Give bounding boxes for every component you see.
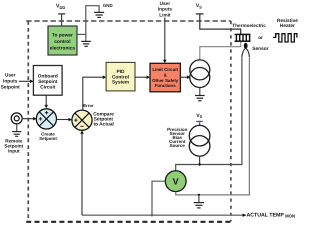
- junction dot actual temp: [151, 214, 153, 216]
- svg-text:GND: GND: [103, 3, 113, 8]
- ground symbol under rail: [81, 41, 91, 46]
- wire bias source to junction: [199, 156, 201, 165]
- svg-text:Error: Error: [83, 103, 94, 108]
- svg-text:User: User: [5, 73, 16, 79]
- label VDD: [56, 4, 65, 10]
- sensor bias current source: [189, 125, 210, 156]
- svg-text:Setpoint: Setpoint: [39, 136, 57, 141]
- svg-text:or: or: [258, 35, 263, 40]
- svg-text:to Actual: to Actual: [94, 121, 114, 127]
- TEC current source: [190, 60, 210, 88]
- svg-text:Thermoelectric: Thermoelectric: [232, 23, 266, 28]
- svg-text:Limit: Limit: [159, 12, 171, 17]
- remote input connector: [11, 113, 22, 124]
- dashed enclosure right border: [230, 21, 232, 222]
- svg-text:Control: Control: [112, 74, 129, 80]
- compare summer: [72, 110, 92, 130]
- dashed enclosure bottom border: [26, 221, 232, 223]
- wire actual temp feedback: [82, 214, 243, 216]
- svg-text:V: V: [173, 176, 179, 186]
- label Resistive Heater: [277, 18, 298, 29]
- wire VS to bias source: [199, 122, 201, 126]
- label Precision Sensor Bias Current Source: [167, 127, 188, 148]
- svg-text:control: control: [54, 39, 70, 45]
- svg-text:VS: VS: [196, 113, 202, 119]
- svg-text:Limit Circuit: Limit Circuit: [152, 67, 178, 72]
- wire error to PID: [83, 77, 103, 110]
- svg-text:ACTUAL TEMP MON: ACTUAL TEMP MON: [247, 212, 296, 218]
- wire sensor low side: [176, 58, 250, 195]
- wire limit box to TEC current source: [180, 76, 187, 78]
- svg-text:To power: To power: [52, 32, 73, 38]
- label Remote Setpoint Input: [4, 139, 23, 154]
- ground under connector: [12, 124, 21, 136]
- ground under TEC source: [195, 96, 205, 101]
- sensor bead: [244, 43, 248, 49]
- wire VDD to power box: [61, 14, 63, 27]
- label Create Setpoint: [39, 131, 57, 141]
- VDD supply bar: [58, 13, 65, 15]
- limit circuit box: [150, 63, 180, 92]
- svg-text:Inputs: Inputs: [3, 79, 18, 85]
- wire onboard box to create summer: [45, 95, 47, 105]
- svg-text:VS: VS: [196, 3, 202, 9]
- wire user setpoint arrow: [19, 80, 31, 82]
- wire power box to ground rail: [77, 33, 86, 35]
- VS top supply bar: [196, 13, 204, 15]
- svg-text:Sensor: Sensor: [252, 46, 268, 52]
- dashed enclosure left border: [27, 21, 29, 222]
- svg-text:VDD: VDD: [56, 4, 65, 10]
- svg-text:Setpoint: Setpoint: [1, 84, 21, 90]
- svg-text:Input: Input: [8, 149, 20, 154]
- resistive heater element: [273, 34, 297, 42]
- svg-text:Onboard: Onboard: [38, 73, 58, 79]
- svg-text:Heater: Heater: [280, 23, 295, 29]
- wire feedback riser: [81, 133, 83, 215]
- create setpoint summer: [36, 109, 56, 129]
- PID control box: [106, 62, 135, 91]
- wire user limit arrow: [164, 17, 166, 60]
- svg-text:electronics: electronics: [50, 46, 76, 52]
- svg-text:Resistive: Resistive: [277, 18, 298, 24]
- onboard setpoint box: [33, 66, 62, 96]
- wire PID to limit box: [135, 76, 147, 78]
- svg-text:System: System: [112, 80, 129, 86]
- dashed enclosure top border: [26, 20, 231, 22]
- svg-text:Setpoint: Setpoint: [38, 79, 58, 85]
- sensor probe dome: [242, 48, 250, 57]
- wire VS to thermoelectric: [200, 14, 241, 35]
- svg-text:PID: PID: [117, 69, 126, 75]
- actual temp output arrow: [243, 214, 247, 217]
- svg-text:Functions: Functions: [155, 83, 177, 88]
- junction dot bias/meter: [198, 163, 200, 165]
- svg-text:User: User: [160, 1, 171, 6]
- label User Inputs Setpoint: [1, 73, 21, 91]
- junction dot ground: [198, 194, 200, 196]
- wire TEC return to current source: [200, 41, 241, 60]
- power control box: [48, 26, 77, 55]
- voltmeter V: [165, 171, 186, 192]
- wire voltmeter to actual temp line: [152, 181, 165, 215]
- label Compare Setpoint to Actual: [93, 111, 114, 127]
- thermoelectric element: [235, 34, 251, 41]
- label User Inputs Limit: [158, 1, 172, 17]
- wire junction to ground: [198, 195, 200, 202]
- wire sensor high side: [176, 58, 242, 171]
- svg-text:Other Safety: Other Safety: [152, 78, 179, 83]
- svg-text:Inputs: Inputs: [158, 7, 172, 12]
- ground under sensor return: [194, 203, 204, 208]
- svg-text:Circuit: Circuit: [40, 85, 56, 91]
- VS lower supply bar: [196, 120, 203, 122]
- arrowhead feedback into compare summer: [80, 130, 84, 133]
- wire ground rail vertical: [86, 6, 99, 42]
- svg-text:Source: Source: [170, 143, 186, 148]
- wire remote connector to create summer: [22, 118, 34, 120]
- wire TEC source to ground: [199, 88, 201, 96]
- wire create to compare summer: [57, 119, 69, 121]
- ground symbol GND: [94, 12, 104, 17]
